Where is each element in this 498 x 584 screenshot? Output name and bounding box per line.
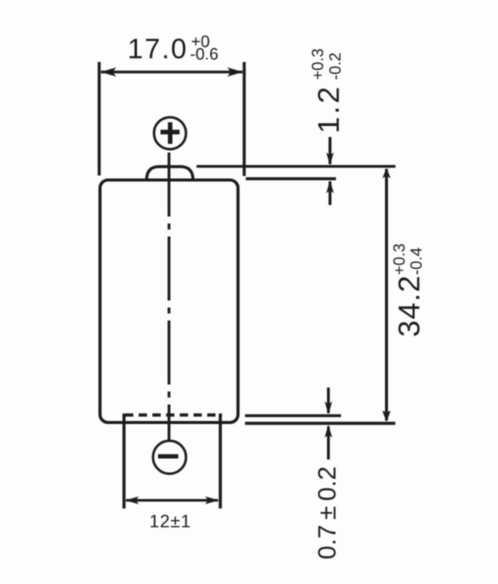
label: tolerance +0.3 / -0.2 (rotated) (312, 49, 323, 79)
extension line: recess left (12 dim) (122, 414, 125, 509)
positive terminal button (147, 167, 193, 180)
extension line: recess right (12 dim) (219, 414, 222, 509)
dimension 12: left arrowhead (125, 496, 139, 504)
dimension 0.7: lower arrow tail (327, 427, 330, 460)
hidden line: negative recess (dashed) (125, 413, 222, 416)
label: 17.0 (130, 39, 186, 59)
dimension 17.0: dimension line (101, 71, 243, 74)
dimension 0.7: upper arrowhead (down) (325, 401, 333, 414)
dimension 0.7: lower arrowhead (up) (325, 425, 333, 438)
center line (dash-dot) (168, 153, 171, 441)
dimension 1.2: lower arrowhead (up) (326, 180, 334, 193)
positive polarity symbol: plus cross (161, 122, 180, 144)
positive polarity symbol: circle (154, 117, 186, 149)
dimension 17.0: right extension line (243, 62, 246, 176)
dimension 1.2: upper arrowhead (down) (326, 152, 334, 165)
battery body outline (100, 180, 238, 423)
dimension 34.2: dimension line (385, 169, 388, 421)
negative polarity symbol: circle (153, 441, 186, 474)
extension line: body bottom right (0.7 / 34.2 dims) (245, 422, 395, 425)
negative polarity symbol: minus bar (158, 454, 178, 458)
dimension 0.7: upper arrow tail (327, 388, 330, 414)
dimension 17.0: right arrowhead (227, 67, 243, 76)
dimension 1.2: lower arrow tail (329, 182, 332, 206)
extension line: body top (1.2 dim) (246, 177, 336, 180)
dimension 17.0: left arrowhead (101, 67, 117, 76)
label: tolerance +0 / -0.6 (192, 36, 209, 48)
label: 0.7 ± 0.2 (rotated) (318, 468, 336, 559)
dimension 34.2: top arrowhead (up) (382, 168, 390, 179)
dimension 12: right arrowhead (205, 496, 219, 504)
extension line: recess plane right (0.7 dim) (245, 414, 341, 417)
dimension 17.0: left extension line (98, 62, 101, 176)
label: 12±1 (151, 515, 190, 528)
dimension 1.2: upper arrow tail (329, 137, 332, 164)
label: 1.2 (rotated) (318, 88, 339, 131)
extension line: button top (1.2 / 34.2 dims) (197, 165, 396, 168)
dimension 12: dimension line (126, 499, 218, 502)
dimension 34.2: bottom arrowhead (down) (382, 411, 390, 422)
label: tolerance +0.3 / -0.4 (rotated) (393, 244, 404, 274)
label: 34.2 (rotated) (398, 277, 419, 336)
